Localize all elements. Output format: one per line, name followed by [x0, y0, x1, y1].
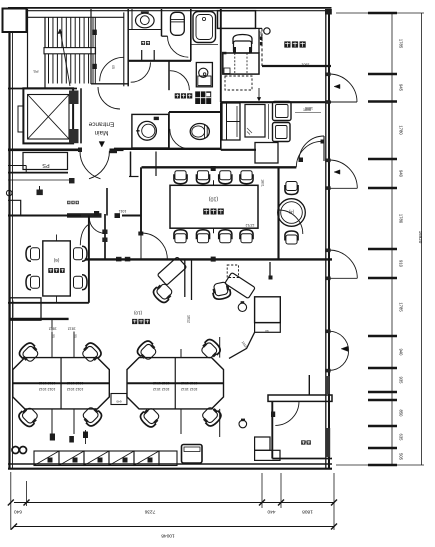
svg-text:935: 935 [399, 377, 404, 385]
reception south wall [221, 149, 256, 151]
wall y112 [169, 111, 221, 113]
WC2 urinal [171, 12, 185, 35]
corridor south wall [8, 215, 81, 217]
steps [255, 437, 270, 450]
wall x169 lower [168, 112, 170, 149]
reception north wall [221, 101, 331, 103]
outer wall top [8, 7, 332, 9]
entrance double door arcs [80, 151, 101, 179]
svg-text:640: 640 [116, 400, 121, 404]
bath bottom line [191, 44, 218, 46]
president room label [284, 41, 305, 47]
svg-text:1785: 1785 [399, 39, 404, 49]
hinge blobs meeting [211, 166, 216, 171]
svg-text:7236: 7236 [144, 509, 155, 515]
column top-right [325, 9, 332, 15]
kitchen label yuwakashi [175, 93, 193, 98]
svg-text:PS: PS [42, 162, 50, 168]
toilet2 oval [190, 124, 209, 140]
svg-text:1785: 1785 [399, 302, 404, 312]
lobby symbol mark [37, 190, 43, 196]
svg-text:PS: PS [33, 69, 39, 73]
unit room left wall [271, 401, 273, 458]
workstation chair left [151, 281, 174, 304]
bottom ext lines [10, 472, 12, 530]
reception side wall [220, 102, 222, 150]
vestibule wall x156 [155, 152, 157, 177]
stair hall bottom wall [91, 83, 129, 85]
WC2 door arc [168, 36, 189, 57]
cluster A chairs [17, 341, 40, 364]
office north wall (long) [85, 258, 332, 260]
square box cabinet [255, 297, 281, 323]
wall stub y28 [256, 27, 263, 29]
svg-text:1012 1012: 1012 1012 [181, 387, 198, 391]
toilet block left wall [123, 12, 125, 86]
lobby shelf line [8, 179, 72, 181]
stair treads lower flight [48, 54, 50, 84]
svg-text:1808: 1808 [302, 509, 313, 515]
elevator hall hinge mark [69, 178, 75, 183]
wardrobe circles [12, 447, 19, 454]
president south wall [262, 65, 331, 67]
svg-text:05: 05 [111, 65, 115, 69]
stair closet wall [27, 9, 29, 89]
elevator hall door arc [98, 87, 120, 109]
svg-text:940: 940 [399, 170, 404, 178]
unit room top wall band [268, 395, 332, 401]
svg-text:(10): (10) [133, 311, 142, 316]
entrance wall left [8, 149, 80, 152]
svg-text:16920: 16920 [418, 231, 423, 244]
meeting room right wall [277, 167, 279, 259]
unit room south wall [272, 458, 332, 460]
svg-text:12712: 12712 [245, 223, 254, 227]
entrance arrow [99, 142, 105, 148]
post circle [264, 28, 270, 34]
svg-text:(10): (10) [209, 196, 219, 202]
WC1 inner wall [131, 9, 133, 30]
locker end box [159, 451, 177, 466]
wall stub x309 [308, 375, 310, 395]
entrance wall right [110, 149, 124, 152]
washbasin circle [138, 121, 157, 140]
elevator hall wall [80, 88, 82, 143]
bath room wall [190, 9, 192, 61]
small room wall x105 [104, 214, 106, 259]
storage room box [218, 11, 256, 29]
dim extension top [336, 12, 424, 14]
lobby alcove [8, 200, 21, 214]
reception door arc [299, 136, 324, 161]
svg-text:1012 1012: 1012 1012 [39, 381, 56, 385]
table6 [43, 241, 71, 296]
door hinge blobs [78, 148, 82, 153]
meeting room left door arc [141, 233, 167, 259]
cluster A stub lines [51, 332, 53, 358]
square table [255, 143, 278, 164]
room6 chairs left [26, 246, 40, 261]
wall stub right of cluster [269, 262, 271, 278]
stair left wall [44, 17, 46, 88]
workstation desk left [157, 257, 186, 285]
svg-text:1780: 1780 [399, 214, 404, 224]
svg-text:1011: 1011 [119, 209, 127, 213]
dim chain line right [391, 13, 393, 465]
svg-text:10048: 10048 [161, 533, 175, 539]
bathtub [193, 12, 216, 43]
svg-text:505: 505 [399, 453, 404, 461]
sofa couch [222, 103, 240, 140]
svg-text:1012 1012: 1012 1012 [153, 381, 170, 385]
president desk [223, 53, 259, 74]
elevator counterweight [18, 106, 23, 132]
desk cluster B [127, 358, 224, 409]
president chair [233, 35, 252, 45]
elevator shaft [23, 88, 73, 143]
svg-text:1812: 1812 [49, 327, 57, 331]
outer wall right [325, 9, 327, 468]
workstation chair right [211, 281, 231, 300]
svg-text:1012 1012: 1012 1012 [67, 381, 84, 385]
stool bottom [239, 420, 247, 428]
svg-text:(6): (6) [53, 258, 59, 263]
armchair 2 [273, 123, 291, 142]
lobby label [67, 201, 79, 204]
stair wall marks [92, 30, 97, 35]
meeting table [170, 185, 258, 228]
svg-text:1780: 1780 [399, 125, 404, 135]
storage box below room6 [10, 298, 41, 320]
elevator door jamb lower [69, 129, 79, 143]
elevator door jamb upper [69, 91, 79, 105]
ext door arc 2 [329, 187, 357, 189]
ext door arc 1 [329, 101, 357, 103]
armchair 1 [273, 102, 292, 121]
right wall hinge blobs [325, 73, 330, 77]
coffee table [245, 105, 265, 138]
thick wall L [10, 318, 69, 320]
right wall marks [326, 376, 330, 394]
kitchen door arc [170, 71, 190, 91]
meeting room right door arc [279, 210, 303, 234]
svg-text:1612: 1612 [187, 315, 191, 323]
bottom overall line [14, 526, 334, 528]
partition double wall [184, 259, 186, 297]
corridor door arc [89, 218, 105, 234]
washroom box [132, 114, 169, 148]
room6 east wall [88, 216, 90, 303]
svg-text:1801: 1801 [261, 179, 265, 187]
column top-left [3, 9, 27, 33]
svg-text:1012 1012: 1012 1012 [67, 387, 84, 391]
svg-text:40: 40 [265, 329, 269, 333]
workstation desk right [225, 272, 256, 298]
svg-text:640: 640 [14, 509, 22, 515]
elevator cross X [28, 95, 69, 140]
kitchen divider wall [168, 61, 170, 90]
WC1 toilet [136, 13, 155, 28]
vestibule wall x130.5 [130, 152, 132, 177]
svg-text:1801: 1801 [302, 63, 310, 67]
unit room label [302, 440, 310, 445]
unit room door arc [275, 401, 299, 425]
stub walls near washroom [141, 50, 143, 61]
right wall dark fill [326, 428, 330, 457]
stair hall door arc [100, 57, 124, 81]
round table chair top [285, 182, 298, 195]
svg-text:850: 850 [399, 410, 404, 418]
round table [278, 199, 306, 227]
svg-text:910: 910 [399, 260, 404, 268]
toilet divider wall [161, 9, 163, 36]
block divider wall x221 [220, 9, 222, 102]
outer wall left [8, 9, 10, 468]
svg-text:(4): (4) [288, 210, 294, 215]
stair inner top wall [28, 16, 124, 18]
corridor wall x107 [106, 188, 108, 216]
overall dim line right [421, 13, 423, 465]
svg-text:1806: 1806 [303, 108, 311, 112]
meeting chairs bottom row [174, 230, 187, 243]
workstation dashed box [227, 265, 238, 278]
toilet block mid wall [128, 60, 191, 62]
Main Entrance text (rotated) [88, 121, 114, 137]
president return desk dashed [225, 76, 252, 90]
ext door arc 4 (semi) [329, 331, 349, 370]
door stop circle on left wall [6, 190, 12, 196]
meeting room door arc top-right [296, 141, 322, 167]
svg-text:1012 1012: 1012 1012 [153, 387, 170, 391]
cluster B stub [219, 337, 221, 358]
wall x259 [258, 28, 260, 53]
svg-text:Entrance: Entrance [88, 121, 114, 128]
ext door arc 3 [329, 277, 357, 279]
room6 door arc [80, 224, 89, 245]
stair right wall [90, 9, 92, 84]
svg-text:Main: Main [94, 129, 108, 136]
svg-text:50: 50 [73, 334, 77, 338]
meeting room top wall [142, 166, 297, 168]
reception counter solid [67, 213, 102, 218]
svg-text:940: 940 [399, 349, 404, 357]
hinge blob washroom [154, 117, 159, 120]
stair treads upper flight [48, 17, 50, 47]
cluster B chairs [135, 339, 158, 362]
dim extension bottom [336, 464, 424, 466]
meeting room left wall [140, 167, 142, 233]
svg-text:1012 1012: 1012 1012 [39, 387, 56, 391]
pointer arrow [258, 88, 260, 100]
kitchen stove dark [195, 91, 211, 104]
stair landing [44, 48, 96, 54]
desk cluster A [13, 358, 110, 409]
partition diagonal [229, 332, 255, 358]
kitchen sink unit [196, 63, 212, 87]
wall below PS [8, 172, 68, 174]
outer wall bottom [8, 463, 332, 465]
svg-text:50: 50 [51, 334, 55, 338]
stool [238, 303, 246, 311]
small cabinet [255, 323, 281, 333]
bottom chain line [14, 502, 334, 504]
lobby-side door arc [131, 62, 151, 82]
svg-text:945: 945 [399, 84, 404, 92]
room6 south wall [8, 302, 89, 304]
president wall dashed x262 [261, 28, 263, 66]
WC1 wall bottom [128, 29, 161, 31]
copier [182, 445, 203, 464]
washroom label [141, 41, 150, 45]
toilet2 door arc [170, 129, 190, 149]
svg-text:1812: 1812 [68, 327, 76, 331]
room6 chairs right [74, 246, 88, 261]
PS duct box [23, 153, 68, 170]
svg-text:635: 635 [399, 434, 404, 442]
meeting chairs top row [174, 171, 187, 184]
locker row [34, 451, 59, 466]
dim chain ticks [368, 12, 397, 14]
corridor south wall right part [114, 148, 221, 150]
svg-text:1012 1012: 1012 1012 [181, 381, 198, 385]
svg-text:440: 440 [267, 509, 275, 515]
stair up-line diagonal [60, 29, 70, 86]
connector box [111, 394, 127, 405]
round table chair bottom [285, 231, 298, 244]
small room hinge blobs bottom [116, 257, 122, 262]
elevator cab [28, 95, 69, 140]
